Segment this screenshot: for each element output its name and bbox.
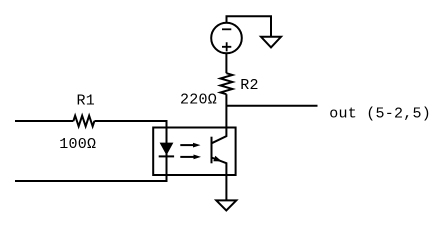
- svg-text:out (5-2,5): out (5-2,5): [329, 105, 431, 122]
- svg-text:220Ω: 220Ω: [180, 92, 217, 109]
- svg-text:R2: R2: [240, 77, 259, 94]
- svg-text:R1: R1: [77, 93, 96, 110]
- svg-text:100Ω: 100Ω: [59, 136, 96, 153]
